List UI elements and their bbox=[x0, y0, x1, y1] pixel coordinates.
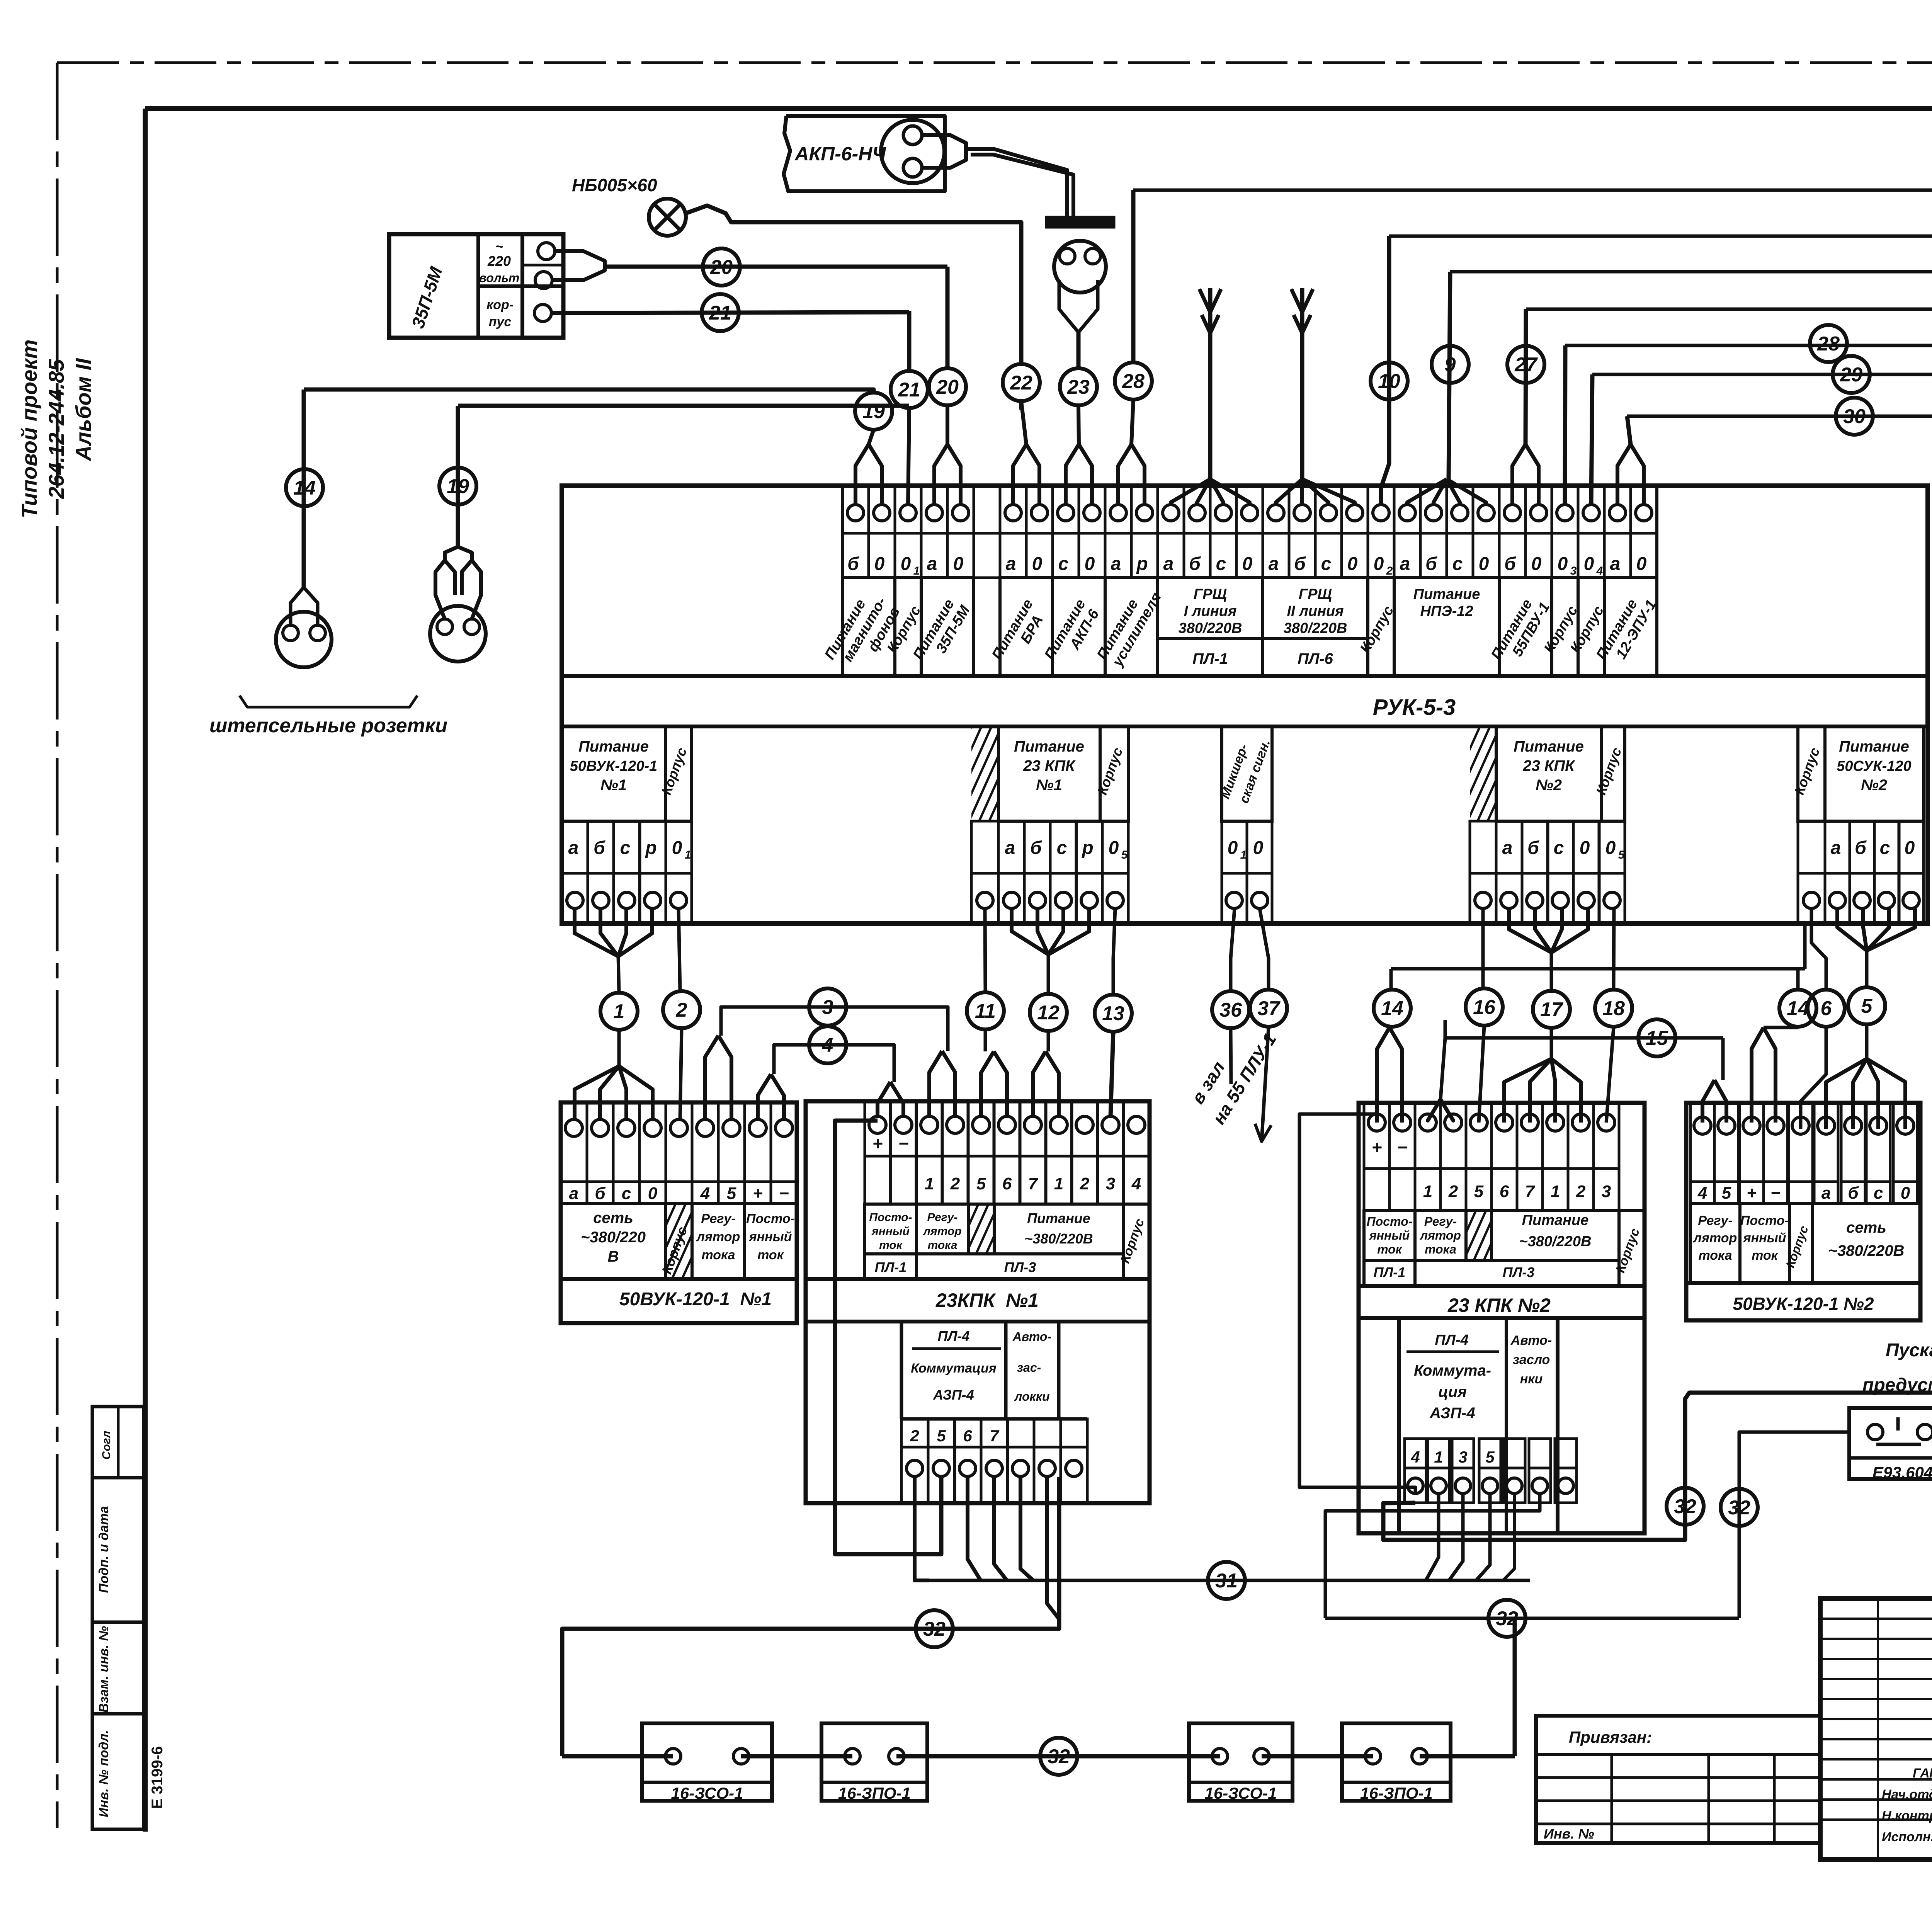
svg-text:+: + bbox=[1747, 1184, 1757, 1203]
wire 3 run (50ВУК 4,5 to КПК1 1,2) bbox=[721, 1007, 948, 1051]
run 2507 between 14L and РУК-E bbox=[1391, 967, 1805, 971]
circled number 32 (starter left) bbox=[1721, 1489, 1758, 1526]
label Корпус (cell 29) bbox=[1578, 578, 1604, 676]
wire 11 V to КПК№1 cells 5,6 bbox=[984, 1030, 987, 1051]
svg-text:2: 2 bbox=[676, 999, 687, 1021]
circled number 11 bbox=[967, 992, 1004, 1029]
wire 29 run bbox=[1592, 373, 1932, 376]
svg-text:32: 32 bbox=[1674, 1495, 1696, 1518]
svg-text:а: а bbox=[1400, 554, 1410, 574]
wire from АЗП КПК1 cell 5 down bbox=[1047, 1477, 1059, 1619]
label Корпус (group E) bbox=[1798, 726, 1825, 821]
top terminal 22 circle bbox=[1399, 505, 1415, 521]
block 23 КПК №2 bbox=[1359, 1103, 1645, 1533]
plug symbol and cable to bar bbox=[922, 135, 966, 168]
wire 27 drop to cells 26,27 bbox=[1526, 309, 1526, 444]
top terminal 12 circle bbox=[1136, 505, 1153, 521]
svg-text:нки: нки bbox=[1520, 1372, 1543, 1386]
circled number 17 bbox=[1533, 991, 1570, 1028]
label Регулятор тока (КПК2) bbox=[1415, 1210, 1466, 1260]
top terminal 16 circle bbox=[1242, 505, 1258, 521]
label Корпус (cell 3) bbox=[895, 578, 921, 676]
hatched cell (КПК2) bbox=[1466, 1210, 1492, 1260]
svg-text:6: 6 bbox=[1002, 1174, 1012, 1193]
label Питание 35П-5М (cells 4-5) bbox=[921, 578, 974, 676]
circled number 32 (box run) bbox=[1040, 1738, 1077, 1775]
svg-text:лятор: лятор bbox=[1419, 1228, 1461, 1242]
svg-text:9: 9 bbox=[1445, 354, 1456, 376]
top terminal 29 circle bbox=[1583, 505, 1599, 521]
top terminal 20 circle bbox=[1347, 505, 1363, 521]
circled number 10 (above strip) bbox=[1371, 362, 1408, 400]
svg-text:Регу-: Регу- bbox=[701, 1211, 736, 1226]
wire 32a run (left) bbox=[562, 1477, 1059, 1756]
wire V to cells 11,12 (28) bbox=[1118, 444, 1131, 505]
top terminal 13 circle bbox=[1163, 505, 1179, 521]
top terminal 19 circle bbox=[1320, 505, 1337, 521]
wire 9 run bbox=[1450, 270, 1932, 274]
block 50ВУК-120-1 №1 bbox=[561, 1102, 797, 1323]
label Микшерская сигнализация bbox=[1222, 726, 1272, 821]
wire 12 from group B fan bbox=[1012, 908, 1048, 954]
plug socket 2 bbox=[430, 606, 486, 662]
circled number 16 bbox=[1466, 988, 1503, 1026]
label Питание 23 КПК №2 bbox=[1496, 726, 1601, 821]
svg-text:14: 14 bbox=[293, 477, 316, 499]
svg-text:16: 16 bbox=[1473, 996, 1496, 1019]
circled number 28 (above strip) bbox=[1115, 362, 1152, 400]
svg-text:предусматривается проектом эле: предусматривается проектом электрооборуд… bbox=[1862, 1375, 1932, 1395]
svg-text:29: 29 bbox=[1840, 364, 1862, 386]
svg-text:16-ЗПО-1: 16-ЗПО-1 bbox=[1360, 1784, 1433, 1802]
svg-text:37: 37 bbox=[1257, 997, 1281, 1020]
svg-text:23КПК №1: 23КПК №1 bbox=[935, 1289, 1039, 1311]
svg-text:Авто-: Авто- bbox=[1012, 1330, 1051, 1344]
circled number 14 (plug) bbox=[286, 469, 323, 506]
svg-text:0: 0 bbox=[1374, 554, 1384, 574]
wire 30 drop to cells 30,31 bbox=[1627, 416, 1631, 444]
box 16-ЗСО-1 (3) bbox=[1189, 1723, 1293, 1801]
svg-text:ПЛ-1: ПЛ-1 bbox=[1192, 650, 1228, 667]
svg-text:Регу-: Регу- bbox=[1698, 1213, 1733, 1228]
wire 10 run bbox=[1389, 235, 1932, 238]
box 16-ЗПО-1 (2) bbox=[821, 1723, 927, 1801]
hook wire from КПК2 + terminal to АЗП bbox=[1299, 1114, 1415, 1493]
ГРЩ II fan to cells 17-20 bbox=[1276, 479, 1302, 505]
title block table bbox=[1820, 1599, 1932, 1859]
circled number 21 (left) bbox=[702, 294, 739, 331]
svg-text:18: 18 bbox=[1602, 997, 1625, 1020]
svg-text:0: 0 bbox=[1347, 554, 1358, 574]
svg-text:лятор: лятор bbox=[696, 1230, 740, 1244]
svg-text:50ВУК-120-1 №2: 50ВУК-120-1 №2 bbox=[1733, 1294, 1874, 1314]
АЗП КПК1 down wires to run 31 bbox=[968, 1477, 981, 1580]
svg-text:ПЛ-4: ПЛ-4 bbox=[1435, 1332, 1468, 1348]
label корпус (50ВУК№2) bbox=[1789, 1203, 1813, 1283]
wire 23 to cells 8,9 bbox=[1077, 332, 1081, 368]
svg-text:Подп. и дата: Подп. и дата bbox=[97, 1506, 111, 1593]
svg-text:15: 15 bbox=[1646, 1027, 1668, 1050]
svg-text:3: 3 bbox=[822, 996, 833, 1019]
АЗП-4 КПК2 bottom terminals bbox=[1405, 1439, 1426, 1468]
circled number 31 bbox=[1208, 1562, 1245, 1599]
svg-text:Питание: Питание bbox=[1014, 738, 1084, 755]
top terminal 21 circle bbox=[1373, 505, 1389, 521]
svg-text:28: 28 bbox=[1817, 333, 1840, 355]
label Питание 380/220В ПЛ-3 (КПК2) bbox=[1492, 1210, 1619, 1260]
svg-text:2: 2 bbox=[1576, 1182, 1586, 1201]
svg-text:0: 0 bbox=[953, 554, 964, 574]
wire 9 drop and fan to cells 22-25 bbox=[1449, 272, 1450, 479]
svg-text:ток: ток bbox=[1752, 1248, 1779, 1263]
top terminal 8 circle bbox=[1031, 505, 1048, 521]
starter box Е93.604 bbox=[1849, 1408, 1932, 1479]
svg-text:Привязан:: Привязан: bbox=[1569, 1728, 1652, 1746]
wire 30 run bbox=[1627, 415, 1932, 418]
wire V to cells 9,10 (23) bbox=[1066, 444, 1079, 505]
circled number 23 bbox=[1060, 368, 1097, 405]
svg-text:с: с bbox=[1452, 554, 1463, 574]
svg-text:а: а bbox=[1111, 554, 1121, 574]
svg-text:0: 0 bbox=[874, 554, 885, 574]
svg-text:36: 36 bbox=[1219, 999, 1242, 1021]
wire 14L drop bbox=[1389, 969, 1393, 989]
svg-text:21: 21 bbox=[898, 379, 920, 401]
wire 21 drop to cell 0-1 bbox=[907, 311, 912, 371]
label корпус (КПК1) bbox=[1124, 1204, 1150, 1279]
svg-text:380/220В: 380/220В bbox=[1179, 620, 1242, 636]
circled number 5 bbox=[1848, 987, 1885, 1024]
circled number 27 (above strip) bbox=[1507, 346, 1544, 383]
label Постоянный ток (50ВУК№1) bbox=[745, 1203, 797, 1279]
wire 36 from микшерская 0-1 bbox=[1231, 908, 1235, 990]
svg-text:с: с bbox=[1057, 838, 1067, 858]
svg-text:7: 7 bbox=[1525, 1182, 1536, 1201]
ГРЩ I feeder arrow bbox=[1208, 288, 1213, 479]
wire 21 from корпус terminal bbox=[551, 312, 909, 313]
page border outer bbox=[57, 61, 1932, 64]
top terminal 31 circle bbox=[1636, 505, 1652, 521]
svg-text:ток: ток bbox=[1377, 1242, 1403, 1256]
svg-text:локки: локки bbox=[1014, 1390, 1049, 1403]
svg-text:Питание: Питание bbox=[1522, 1212, 1589, 1228]
svg-text:лятор: лятор bbox=[1693, 1231, 1737, 1245]
top terminal 14 circle bbox=[1189, 505, 1205, 521]
svg-text:б: б bbox=[1294, 554, 1306, 574]
svg-text:с: с bbox=[1321, 554, 1332, 574]
circled number 37 bbox=[1250, 990, 1287, 1027]
label Питание 55ПВУ-1 (cells 26-27) bbox=[1499, 578, 1552, 676]
svg-text:5: 5 bbox=[937, 1427, 946, 1445]
svg-text:ПЛ-1: ПЛ-1 bbox=[1374, 1264, 1406, 1280]
svg-text:а: а bbox=[569, 1184, 578, 1203]
svg-text:В: В bbox=[608, 1248, 619, 1265]
svg-text:28: 28 bbox=[1122, 370, 1145, 393]
svg-text:+: + bbox=[1372, 1137, 1382, 1157]
circled number 14 (right) bbox=[1779, 990, 1816, 1027]
svg-text:5: 5 bbox=[1861, 995, 1873, 1017]
wire 8 run bbox=[1133, 189, 1932, 192]
label Питание 50СУК-120 №2 bbox=[1825, 726, 1923, 821]
svg-text:~380/220В: ~380/220В bbox=[1024, 1231, 1093, 1247]
circled number 4 bbox=[809, 1026, 846, 1063]
svg-text:3: 3 bbox=[1602, 1182, 1611, 1201]
РУК bottom group A cells (50ВУК №1) bbox=[562, 821, 588, 873]
svg-text:23 КПК: 23 КПК bbox=[1522, 757, 1575, 774]
svg-text:зас-: зас- bbox=[1017, 1361, 1041, 1374]
svg-text:5: 5 bbox=[1722, 1184, 1731, 1203]
svg-text:2: 2 bbox=[1448, 1182, 1458, 1201]
wire V to cells 7,8 (22) bbox=[1013, 444, 1026, 505]
label корпус (50ВУК№1) bbox=[666, 1203, 692, 1279]
top terminal 17 circle bbox=[1268, 505, 1284, 521]
svg-text:22: 22 bbox=[1010, 372, 1032, 394]
svg-text:с: с bbox=[1874, 1184, 1883, 1203]
svg-text:23 КПК: 23 КПК bbox=[1023, 757, 1076, 774]
svg-text:0: 0 bbox=[1479, 554, 1489, 574]
svg-text:+: + bbox=[872, 1133, 883, 1153]
svg-text:с: с bbox=[1216, 554, 1226, 574]
svg-text:Пускатель магнитный дежурного: Пускатель магнитный дежурного освещения bbox=[1886, 1340, 1932, 1361]
top terminal 15 circle bbox=[1215, 505, 1231, 521]
wire run plug2 bbox=[458, 404, 909, 408]
svg-text:20: 20 bbox=[936, 376, 959, 398]
wire 18 from group D 0-5 bbox=[1614, 908, 1614, 989]
wire 20 drop to cells 3,4 bbox=[946, 267, 950, 368]
svg-text:0: 0 bbox=[1032, 554, 1043, 574]
label ГРЩ I линия 380/220В ПЛ-1 (cells 13-16) bbox=[1158, 578, 1263, 676]
svg-text:3: 3 bbox=[1106, 1174, 1115, 1193]
wire 15 V to 50ВУК№2 cells 4,5 bbox=[1721, 1038, 1725, 1080]
svg-text:0: 0 bbox=[1085, 554, 1095, 574]
microphone symbol bbox=[1054, 241, 1106, 293]
svg-text:2: 2 bbox=[1386, 565, 1393, 577]
svg-text:~: ~ bbox=[495, 238, 503, 254]
svg-text:0: 0 bbox=[1109, 838, 1119, 858]
svg-text:Питание: Питание bbox=[578, 738, 649, 755]
svg-text:3: 3 bbox=[1570, 565, 1577, 577]
svg-text:б: б bbox=[1030, 838, 1042, 858]
svg-text:ПЛ-3: ПЛ-3 bbox=[1503, 1264, 1535, 1280]
svg-text:Н.контр: Н.контр bbox=[1882, 1808, 1932, 1823]
svg-text:Инв. №: Инв. № bbox=[1544, 1826, 1594, 1842]
svg-text:0: 0 bbox=[1253, 838, 1264, 858]
label Корпус (group A) bbox=[665, 726, 692, 821]
svg-text:Е 3199-6: Е 3199-6 bbox=[149, 1746, 166, 1809]
svg-text:Авто-: Авто- bbox=[1510, 1333, 1552, 1348]
svg-text:Регу-: Регу- bbox=[1424, 1214, 1457, 1228]
svg-text:р: р bbox=[1136, 554, 1148, 574]
svg-text:Согл: Согл bbox=[100, 1431, 113, 1459]
svg-text:а: а bbox=[927, 554, 937, 574]
svg-text:7: 7 bbox=[1028, 1174, 1039, 1193]
svg-text:ГРЩ: ГРЩ bbox=[1194, 586, 1227, 602]
wire 32 vertical to starter bbox=[1739, 1432, 1849, 1618]
svg-text:Питание: Питание bbox=[1839, 738, 1909, 755]
svg-text:1: 1 bbox=[1423, 1182, 1432, 1201]
svg-text:30: 30 bbox=[1843, 405, 1866, 428]
circled number 19 (above strip) bbox=[855, 393, 892, 430]
wire 16 from group D hatch cell bbox=[1481, 908, 1485, 988]
svg-text:вольт: вольт bbox=[479, 271, 520, 285]
РУК-5-3 band lines bbox=[562, 674, 1928, 678]
connector circle of АКП-6-НЧ bbox=[881, 120, 944, 183]
lamp НБ005х60 (БРА) bbox=[649, 199, 686, 236]
svg-text:Коммутация: Коммутация bbox=[911, 1361, 996, 1376]
hook wire from КПК1 + terminal to АЗП bbox=[835, 1121, 941, 1554]
wire 31 run bbox=[927, 1579, 1530, 1582]
svg-text:5: 5 bbox=[727, 1184, 736, 1203]
label Корпус (cell 28) bbox=[1552, 578, 1578, 676]
label Питание БРА (cells 7-8) bbox=[1000, 578, 1053, 676]
svg-text:23 КПК №2: 23 КПК №2 bbox=[1447, 1294, 1551, 1316]
circled number 2 bbox=[663, 991, 700, 1028]
svg-text:220: 220 bbox=[487, 253, 511, 269]
svg-text:−: − bbox=[779, 1184, 789, 1203]
circled number 30 bbox=[1836, 398, 1873, 435]
svg-text:пус: пус bbox=[489, 315, 512, 329]
device box 35П-5М bbox=[389, 234, 563, 338]
svg-text:тока: тока bbox=[701, 1248, 735, 1262]
svg-text:7: 7 bbox=[990, 1427, 999, 1445]
label Питание НПЭ-12 (cells 22-25) bbox=[1394, 578, 1499, 676]
box 16-ЗСО-1 (1) bbox=[642, 1723, 772, 1801]
svg-text:11: 11 bbox=[975, 1000, 996, 1022]
svg-text:~380/220В: ~380/220В bbox=[1519, 1233, 1592, 1250]
wire 27 run bbox=[1526, 308, 1932, 311]
circled number 28 (mid) bbox=[1810, 325, 1847, 362]
label Питание АКП-6 (cells 9-10) bbox=[1053, 578, 1105, 676]
АЗП-4 section КПК1 bbox=[900, 1322, 903, 1419]
svg-text:16-ЗСО-1: 16-ЗСО-1 bbox=[1205, 1784, 1277, 1802]
svg-text:Инв. № подл.: Инв. № подл. bbox=[97, 1730, 111, 1817]
wire 32b run (right) bbox=[1325, 1617, 1739, 1620]
svg-text:тока: тока bbox=[928, 1239, 957, 1252]
РУК bottom group B cells (23 КПК №1) bbox=[971, 821, 998, 873]
circled number 32 (b run) bbox=[1488, 1600, 1526, 1637]
svg-text:лятор: лятор bbox=[922, 1225, 961, 1238]
svg-text:50ВУК-120-1 №1: 50ВУК-120-1 №1 bbox=[619, 1289, 772, 1310]
wire to cell 3 (21) bbox=[908, 408, 909, 505]
label штепсельные розетки with brace bbox=[240, 696, 417, 707]
svg-text:32: 32 bbox=[1728, 1497, 1750, 1519]
svg-text:1: 1 bbox=[1054, 1174, 1063, 1193]
svg-text:сеть: сеть bbox=[593, 1209, 633, 1226]
top terminal 7 circle bbox=[1005, 505, 1021, 521]
svg-text:Исполн.: Исполн. bbox=[1882, 1830, 1932, 1844]
svg-text:I линия: I линия bbox=[1184, 603, 1237, 619]
label Питание 50ВУК-120-1 №1 bbox=[562, 726, 665, 821]
svg-text:5: 5 bbox=[1121, 849, 1128, 861]
svg-text:АКП-6-НЧ: АКП-6-НЧ bbox=[794, 143, 886, 165]
svg-text:Типовой проект: Типовой проект bbox=[17, 339, 41, 518]
svg-text:0: 0 bbox=[1901, 1184, 1910, 1203]
svg-text:а: а bbox=[1005, 838, 1015, 858]
wires between bottom boxes bbox=[562, 1754, 673, 1759]
svg-text:а: а bbox=[1610, 554, 1621, 574]
svg-text:засло: засло bbox=[1513, 1352, 1550, 1367]
svg-text:ПЛ-4: ПЛ-4 bbox=[938, 1328, 970, 1344]
svg-text:с: с bbox=[1058, 554, 1069, 574]
svg-text:а: а bbox=[1163, 554, 1174, 574]
svg-text:264.12-244.85: 264.12-244.85 bbox=[44, 359, 68, 499]
svg-text:~380/220В: ~380/220В bbox=[1828, 1242, 1905, 1259]
wire 13 from group B 0-5 bbox=[1113, 908, 1115, 994]
svg-text:№2: №2 bbox=[1536, 777, 1562, 794]
wire 28 drop to cell 28 bbox=[1565, 345, 1565, 505]
svg-text:−: − bbox=[1397, 1137, 1408, 1157]
svg-text:0: 0 bbox=[1636, 554, 1647, 574]
top terminal 11 circle bbox=[1110, 505, 1126, 521]
label сеть 380/220В (50ВУК№2) bbox=[1813, 1203, 1920, 1283]
svg-text:0: 0 bbox=[1605, 838, 1616, 858]
svg-text:Коммута-: Коммута- bbox=[1414, 1362, 1491, 1379]
svg-text:№1: №1 bbox=[600, 777, 627, 794]
wire V to cells 4,5 (20) bbox=[934, 444, 947, 505]
svg-text:с: с bbox=[622, 1184, 631, 1203]
svg-text:АЗП-4: АЗП-4 bbox=[1429, 1405, 1475, 1422]
label Питание усилителя (cells 11-12) bbox=[1105, 578, 1158, 676]
terminal circles of 35П-5М bbox=[538, 243, 555, 260]
svg-text:б: б bbox=[1189, 554, 1201, 574]
svg-text:НБ005×60: НБ005×60 bbox=[572, 175, 657, 195]
main block РУК-5-3 outline bbox=[562, 486, 1928, 924]
svg-text:ток: ток bbox=[757, 1248, 784, 1262]
svg-text:ПЛ-3: ПЛ-3 bbox=[1004, 1259, 1036, 1275]
svg-text:Регу-: Регу- bbox=[927, 1211, 958, 1224]
svg-text:1: 1 bbox=[1551, 1182, 1560, 1201]
top terminal 18 circle bbox=[1294, 505, 1310, 521]
label Питание 23 КПК №1 bbox=[998, 726, 1100, 821]
svg-text:янный: янный bbox=[1369, 1228, 1410, 1242]
page border inner frame bbox=[145, 106, 1932, 111]
circled number 21 (above strip) bbox=[891, 371, 928, 408]
svg-text:ция: ция bbox=[1438, 1383, 1467, 1400]
plug socket 1 bbox=[276, 612, 332, 667]
svg-text:ГАП: ГАП bbox=[1913, 1766, 1932, 1781]
svg-text:штепсельные розетки: штепсельные розетки bbox=[209, 714, 447, 737]
svg-text:14: 14 bbox=[1381, 997, 1403, 1020]
svg-text:а: а bbox=[1006, 554, 1016, 574]
svg-text:Посто-: Посто- bbox=[869, 1211, 912, 1224]
wire 15 run bbox=[1445, 1020, 1723, 1038]
svg-text:17: 17 bbox=[1540, 998, 1563, 1021]
привязан table bbox=[1536, 1716, 1820, 1843]
РУК bottom group E cells (50СУК-120 №2) bbox=[1798, 821, 1825, 873]
svg-text:13: 13 bbox=[1102, 1002, 1124, 1025]
starter contacts symbol bbox=[1867, 1424, 1883, 1440]
labels Постоянный ток ПЛ-1 (КПК2) bbox=[1364, 1210, 1415, 1286]
svg-text:12: 12 bbox=[1037, 1002, 1060, 1024]
svg-text:кор-: кор- bbox=[486, 298, 514, 312]
svg-text:ПЛ-6: ПЛ-6 bbox=[1298, 650, 1333, 667]
hatched cell (КПК1) bbox=[968, 1204, 994, 1254]
wire 1: fan from group A cells a,b,c,p bbox=[575, 908, 618, 956]
svg-text:1: 1 bbox=[925, 1174, 934, 1193]
svg-text:Альбом II: Альбом II bbox=[71, 358, 95, 462]
svg-text:№1: №1 bbox=[1036, 777, 1062, 794]
svg-text:2: 2 bbox=[1080, 1174, 1090, 1193]
svg-text:а: а bbox=[1502, 838, 1513, 858]
circled number 6 bbox=[1808, 990, 1845, 1027]
svg-text:50ВУК-120-1: 50ВУК-120-1 bbox=[570, 758, 657, 774]
svg-text:Посто-: Посто- bbox=[1367, 1214, 1413, 1228]
top terminal 27 circle bbox=[1531, 505, 1547, 521]
svg-text:ПЛ-1: ПЛ-1 bbox=[875, 1259, 907, 1275]
circled number 14 (left) bbox=[1374, 990, 1411, 1027]
svg-text:19: 19 bbox=[447, 475, 469, 498]
svg-text:1: 1 bbox=[1434, 1448, 1443, 1466]
